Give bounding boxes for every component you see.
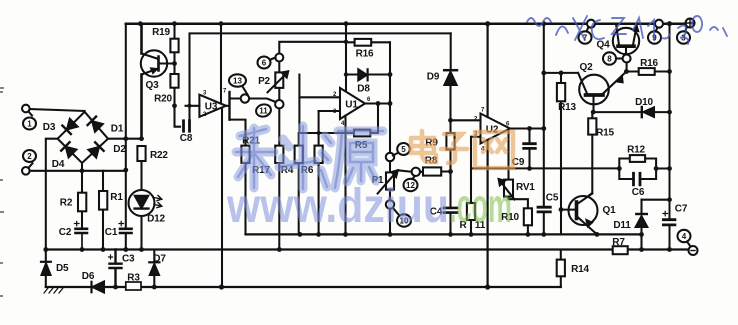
svg-text:13: 13 <box>233 77 242 86</box>
svg-text:R1: R1 <box>110 192 123 203</box>
label Q1 <box>603 205 617 216</box>
resistor R19 <box>170 24 178 64</box>
resistor R10 <box>524 208 532 234</box>
resistor R3 <box>126 282 141 290</box>
wire R16 D8 right node vertical <box>389 42 391 153</box>
svg-text:D2: D2 <box>113 144 126 155</box>
watermark orange char wang <box>475 132 513 168</box>
wire R6 to U1 plus input <box>319 110 340 112</box>
transistor Q2 <box>578 72 626 113</box>
wire top positive rail <box>126 22 686 25</box>
svg-text:D6: D6 <box>82 271 95 282</box>
capacitor C6 parallel branch <box>619 169 656 185</box>
resistor R4 <box>295 133 303 234</box>
resistor R6 <box>315 111 323 234</box>
node terminal 1 input <box>22 105 32 116</box>
label Q2 <box>580 62 594 73</box>
svg-text:4: 4 <box>682 232 687 241</box>
label D12 <box>147 214 165 225</box>
wire Q2 collector column x=543.8 <box>543 24 545 235</box>
capacitor C4 <box>444 172 457 235</box>
label C5 <box>546 193 559 204</box>
node circled 5 <box>393 143 410 156</box>
label R16 right <box>640 58 658 69</box>
svg-text:Q4: Q4 <box>597 40 611 51</box>
potentiometer P2 <box>268 42 346 100</box>
wire positive vertical x=125.8 <box>125 24 127 250</box>
label C4 <box>430 207 443 218</box>
wire mid rail <box>246 233 642 235</box>
label C8 <box>180 133 193 144</box>
capacitor C1 <box>119 221 132 233</box>
label R17 <box>252 165 270 176</box>
node Q4 base terminal circle <box>623 55 631 72</box>
label C1 <box>105 227 118 238</box>
node circled 9 with rail terminal <box>648 20 663 44</box>
diode D2 <box>88 142 104 158</box>
svg-text:D7: D7 <box>153 254 166 265</box>
svg-text:D10: D10 <box>635 97 653 108</box>
capacitor C8 <box>175 106 190 131</box>
label Q3 <box>146 80 160 91</box>
svg-text:C2: C2 <box>59 227 72 238</box>
svg-text:D9: D9 <box>427 72 440 83</box>
wire D10 row y=112.1 <box>593 111 669 113</box>
label P1 <box>372 175 384 186</box>
svg-text:C7: C7 <box>675 204 688 215</box>
ground chassis hatch <box>44 288 63 293</box>
resistor R14 <box>557 250 565 288</box>
resistor R9 <box>446 120 454 171</box>
label R12 <box>627 145 645 156</box>
label R15 <box>596 128 614 139</box>
label RV1 <box>516 182 535 193</box>
svg-text:C5: C5 <box>546 193 559 204</box>
svg-text:R7: R7 <box>612 237 625 248</box>
wire terminal1 to bridge top <box>30 109 85 111</box>
watermark blue char yuan <box>321 131 383 188</box>
svg-text:R12: R12 <box>627 145 645 156</box>
diode D11 <box>636 200 670 250</box>
capacitor C3 <box>109 250 122 288</box>
diode D3 <box>62 118 78 134</box>
svg-text:D3: D3 <box>43 122 56 133</box>
svg-text:R15: R15 <box>596 128 614 139</box>
wire U3 plus-supply from rail <box>220 24 222 104</box>
node circled 7 with rail terminal <box>579 20 596 44</box>
resistor R16 top-middle <box>346 39 390 46</box>
resistor R15 <box>579 112 597 203</box>
label R13 <box>558 102 576 113</box>
svg-text:C3: C3 <box>122 254 135 265</box>
decorative scan smudges left edge <box>0 88 4 296</box>
decorative blue handwriting top right <box>527 16 727 44</box>
diode D6 <box>92 282 105 293</box>
label U3 <box>203 89 227 118</box>
watermark orange char zi <box>441 134 467 163</box>
wire Q2 base feed y=72.9 <box>544 72 578 74</box>
svg-text:Q1: Q1 <box>603 205 617 216</box>
svg-text:C8: C8 <box>180 133 193 144</box>
wire D9 node to U2 minus input <box>451 119 481 121</box>
node blob R6 crossing R5 wire <box>317 131 321 135</box>
wire U2 plus node horizontal y=168.4 <box>471 167 619 169</box>
wire U2 plus-supply thick vertical from rail <box>487 24 489 117</box>
resistor R20 <box>170 64 178 106</box>
svg-text:2: 2 <box>27 152 32 161</box>
label R6 <box>301 165 314 176</box>
svg-text:D4: D4 <box>52 159 65 170</box>
label R7 <box>612 237 625 248</box>
resistor R2 <box>78 171 86 228</box>
label D8 <box>357 84 370 95</box>
wire U2 plus input from R11 <box>471 136 481 138</box>
node circled 12 <box>404 176 418 191</box>
capacitor C2 <box>75 221 88 249</box>
label R21 <box>242 136 260 147</box>
capacitor C7 <box>663 211 675 225</box>
label D4 <box>52 159 65 170</box>
label C7 <box>675 204 688 215</box>
svg-text:5: 5 <box>401 145 406 154</box>
label D2 <box>113 144 126 155</box>
LED D12 <box>129 161 162 250</box>
watermark orange char dian <box>411 131 436 162</box>
label D6 <box>82 271 95 282</box>
label R19 <box>152 27 170 38</box>
label D3 <box>43 122 56 133</box>
svg-text:1: 1 <box>27 120 32 129</box>
label R22 <box>150 150 168 161</box>
resistor R13 <box>557 73 565 235</box>
resistor R8 <box>420 167 451 175</box>
label D11 <box>613 220 631 231</box>
resistor R21 <box>230 120 250 235</box>
wire output negative bus y=249.5 <box>46 248 689 250</box>
watermark blue accent strokes <box>236 126 383 189</box>
wire right bus x=669.5 <box>669 24 671 250</box>
node test point circle 5 <box>386 153 394 161</box>
svg-text:R3: R3 <box>127 273 140 284</box>
svg-text:C1: C1 <box>105 227 118 238</box>
label C9 <box>512 157 525 168</box>
label U1 <box>333 92 371 127</box>
node circled 11 <box>255 103 272 118</box>
svg-text:Q2: Q2 <box>580 62 594 73</box>
label R11 <box>459 220 485 231</box>
label R9 <box>425 138 438 149</box>
svg-text:U3: U3 <box>205 102 218 113</box>
label D5 <box>56 263 69 274</box>
label R10 <box>501 212 519 223</box>
svg-text:U1: U1 <box>345 100 358 111</box>
svg-text:Q3: Q3 <box>146 80 160 91</box>
wire bridge left to D5 column <box>46 139 58 287</box>
wire U2 minus-supply thick vertical to ground rail <box>487 140 489 287</box>
node circled 8 <box>603 52 623 64</box>
rheostat RV1 <box>499 129 528 209</box>
node terminal 4 output minus <box>688 243 698 255</box>
node P1 wiper terminal circle <box>398 168 420 176</box>
diode D7 <box>149 250 159 288</box>
label R8 <box>425 156 438 167</box>
svg-text:D5: D5 <box>56 263 69 274</box>
svg-text:6: 6 <box>262 59 267 68</box>
svg-text:www.dziuu: www.dziuu <box>226 180 449 233</box>
wire bridge right to Q3 column <box>108 138 142 140</box>
op-amp U2 <box>481 114 544 144</box>
svg-text:R14: R14 <box>571 264 589 275</box>
op-amp U3 <box>186 92 230 120</box>
capacitor C9 <box>524 129 536 169</box>
wire bridge diamond <box>58 112 108 171</box>
label C3 <box>122 254 135 265</box>
label Q4 <box>597 40 611 51</box>
label R3 <box>127 273 140 284</box>
resistor R11 <box>467 137 475 235</box>
diode D8 <box>346 69 390 80</box>
diode D9 <box>444 33 457 120</box>
node circled 2 <box>23 150 36 162</box>
diode D1 <box>88 117 104 133</box>
wire U1 minus-supply to mid rail <box>344 116 346 235</box>
label R16 top-middle <box>356 49 374 60</box>
transistor Q4 <box>613 24 639 55</box>
wire U1 plus-supply <box>345 24 347 91</box>
node P1 bottom terminal circle <box>386 200 394 208</box>
label U2 <box>474 108 510 153</box>
wire terminal2 to bridge bottom <box>30 170 125 172</box>
wire R12 network to right bus <box>656 167 669 169</box>
svg-text:P2: P2 <box>258 76 270 87</box>
svg-text:D1: D1 <box>111 124 124 135</box>
wire U1 feedback node vertical <box>299 75 340 134</box>
resistor R16 right <box>626 68 669 75</box>
svg-text:.com: .com <box>449 180 512 233</box>
label R20 <box>154 94 172 105</box>
resistor R1 <box>99 171 107 250</box>
op-amp U1 <box>340 88 390 119</box>
label R2 <box>60 198 73 209</box>
wire U3 output to P2 bottom <box>230 99 276 103</box>
svg-text:R2: R2 <box>60 198 73 209</box>
diode D5 <box>41 262 51 275</box>
svg-text:RV1: RV1 <box>516 182 535 193</box>
resistor R12 parallel branch <box>619 155 656 168</box>
node junction dots <box>43 21 672 290</box>
svg-text:11: 11 <box>259 107 268 116</box>
label R14 <box>571 264 589 275</box>
svg-text:R20: R20 <box>154 94 172 105</box>
svg-text:D8: D8 <box>357 84 370 95</box>
wire P1 bottom to mid rail <box>389 209 391 235</box>
svg-text:D12: D12 <box>147 214 165 225</box>
resistor R7 <box>613 246 628 254</box>
resistor R17 <box>275 108 283 249</box>
watermark url www.dziuu.com <box>226 180 512 233</box>
label R4 <box>281 165 294 176</box>
svg-text:R19: R19 <box>152 27 170 38</box>
svg-text:C6: C6 <box>632 187 645 198</box>
node circled 6 <box>258 57 276 69</box>
svg-text:R16: R16 <box>640 58 658 69</box>
node test point circle near 13 <box>241 94 249 102</box>
label D1 <box>111 124 124 135</box>
resistor R22 <box>137 146 145 161</box>
diode D4 <box>61 142 77 158</box>
label P2 <box>258 76 270 87</box>
label C2 <box>59 227 72 238</box>
node blob C8 crossing <box>188 104 192 108</box>
node circled 3 <box>677 31 690 43</box>
capacitor C5 <box>538 207 550 212</box>
node circled 10 <box>393 208 411 227</box>
resistor R5 feedback <box>299 104 378 137</box>
label R1 <box>110 192 123 203</box>
node circled 4 <box>678 230 691 242</box>
svg-text:R13: R13 <box>558 102 576 113</box>
label R5 <box>355 140 368 151</box>
diode D10 <box>642 107 654 117</box>
label D10 <box>635 97 653 108</box>
svg-text:8: 8 <box>607 55 612 64</box>
node terminal 3 output plus <box>685 19 695 32</box>
watermark blue char ke <box>236 126 316 189</box>
svg-text:R16: R16 <box>356 49 374 60</box>
wire U3 minus-supply to ground rail <box>221 108 223 287</box>
node P2 bottom terminal circle <box>275 100 283 108</box>
node terminal 2 input <box>22 163 33 174</box>
node circled 13 <box>229 74 248 94</box>
label C6 <box>632 187 645 198</box>
transistor Q3 <box>141 24 175 139</box>
svg-text:D11: D11 <box>613 220 631 231</box>
label D7 <box>153 254 166 265</box>
wire C8 right plate up to D9 feed line <box>190 33 451 121</box>
potentiometer P1 <box>378 161 398 200</box>
label D9 <box>427 72 440 83</box>
node circled 1 <box>23 118 36 130</box>
wire bottom ground rail <box>46 286 561 288</box>
svg-text:R22: R22 <box>150 150 168 161</box>
transistor Q1 <box>561 194 598 235</box>
